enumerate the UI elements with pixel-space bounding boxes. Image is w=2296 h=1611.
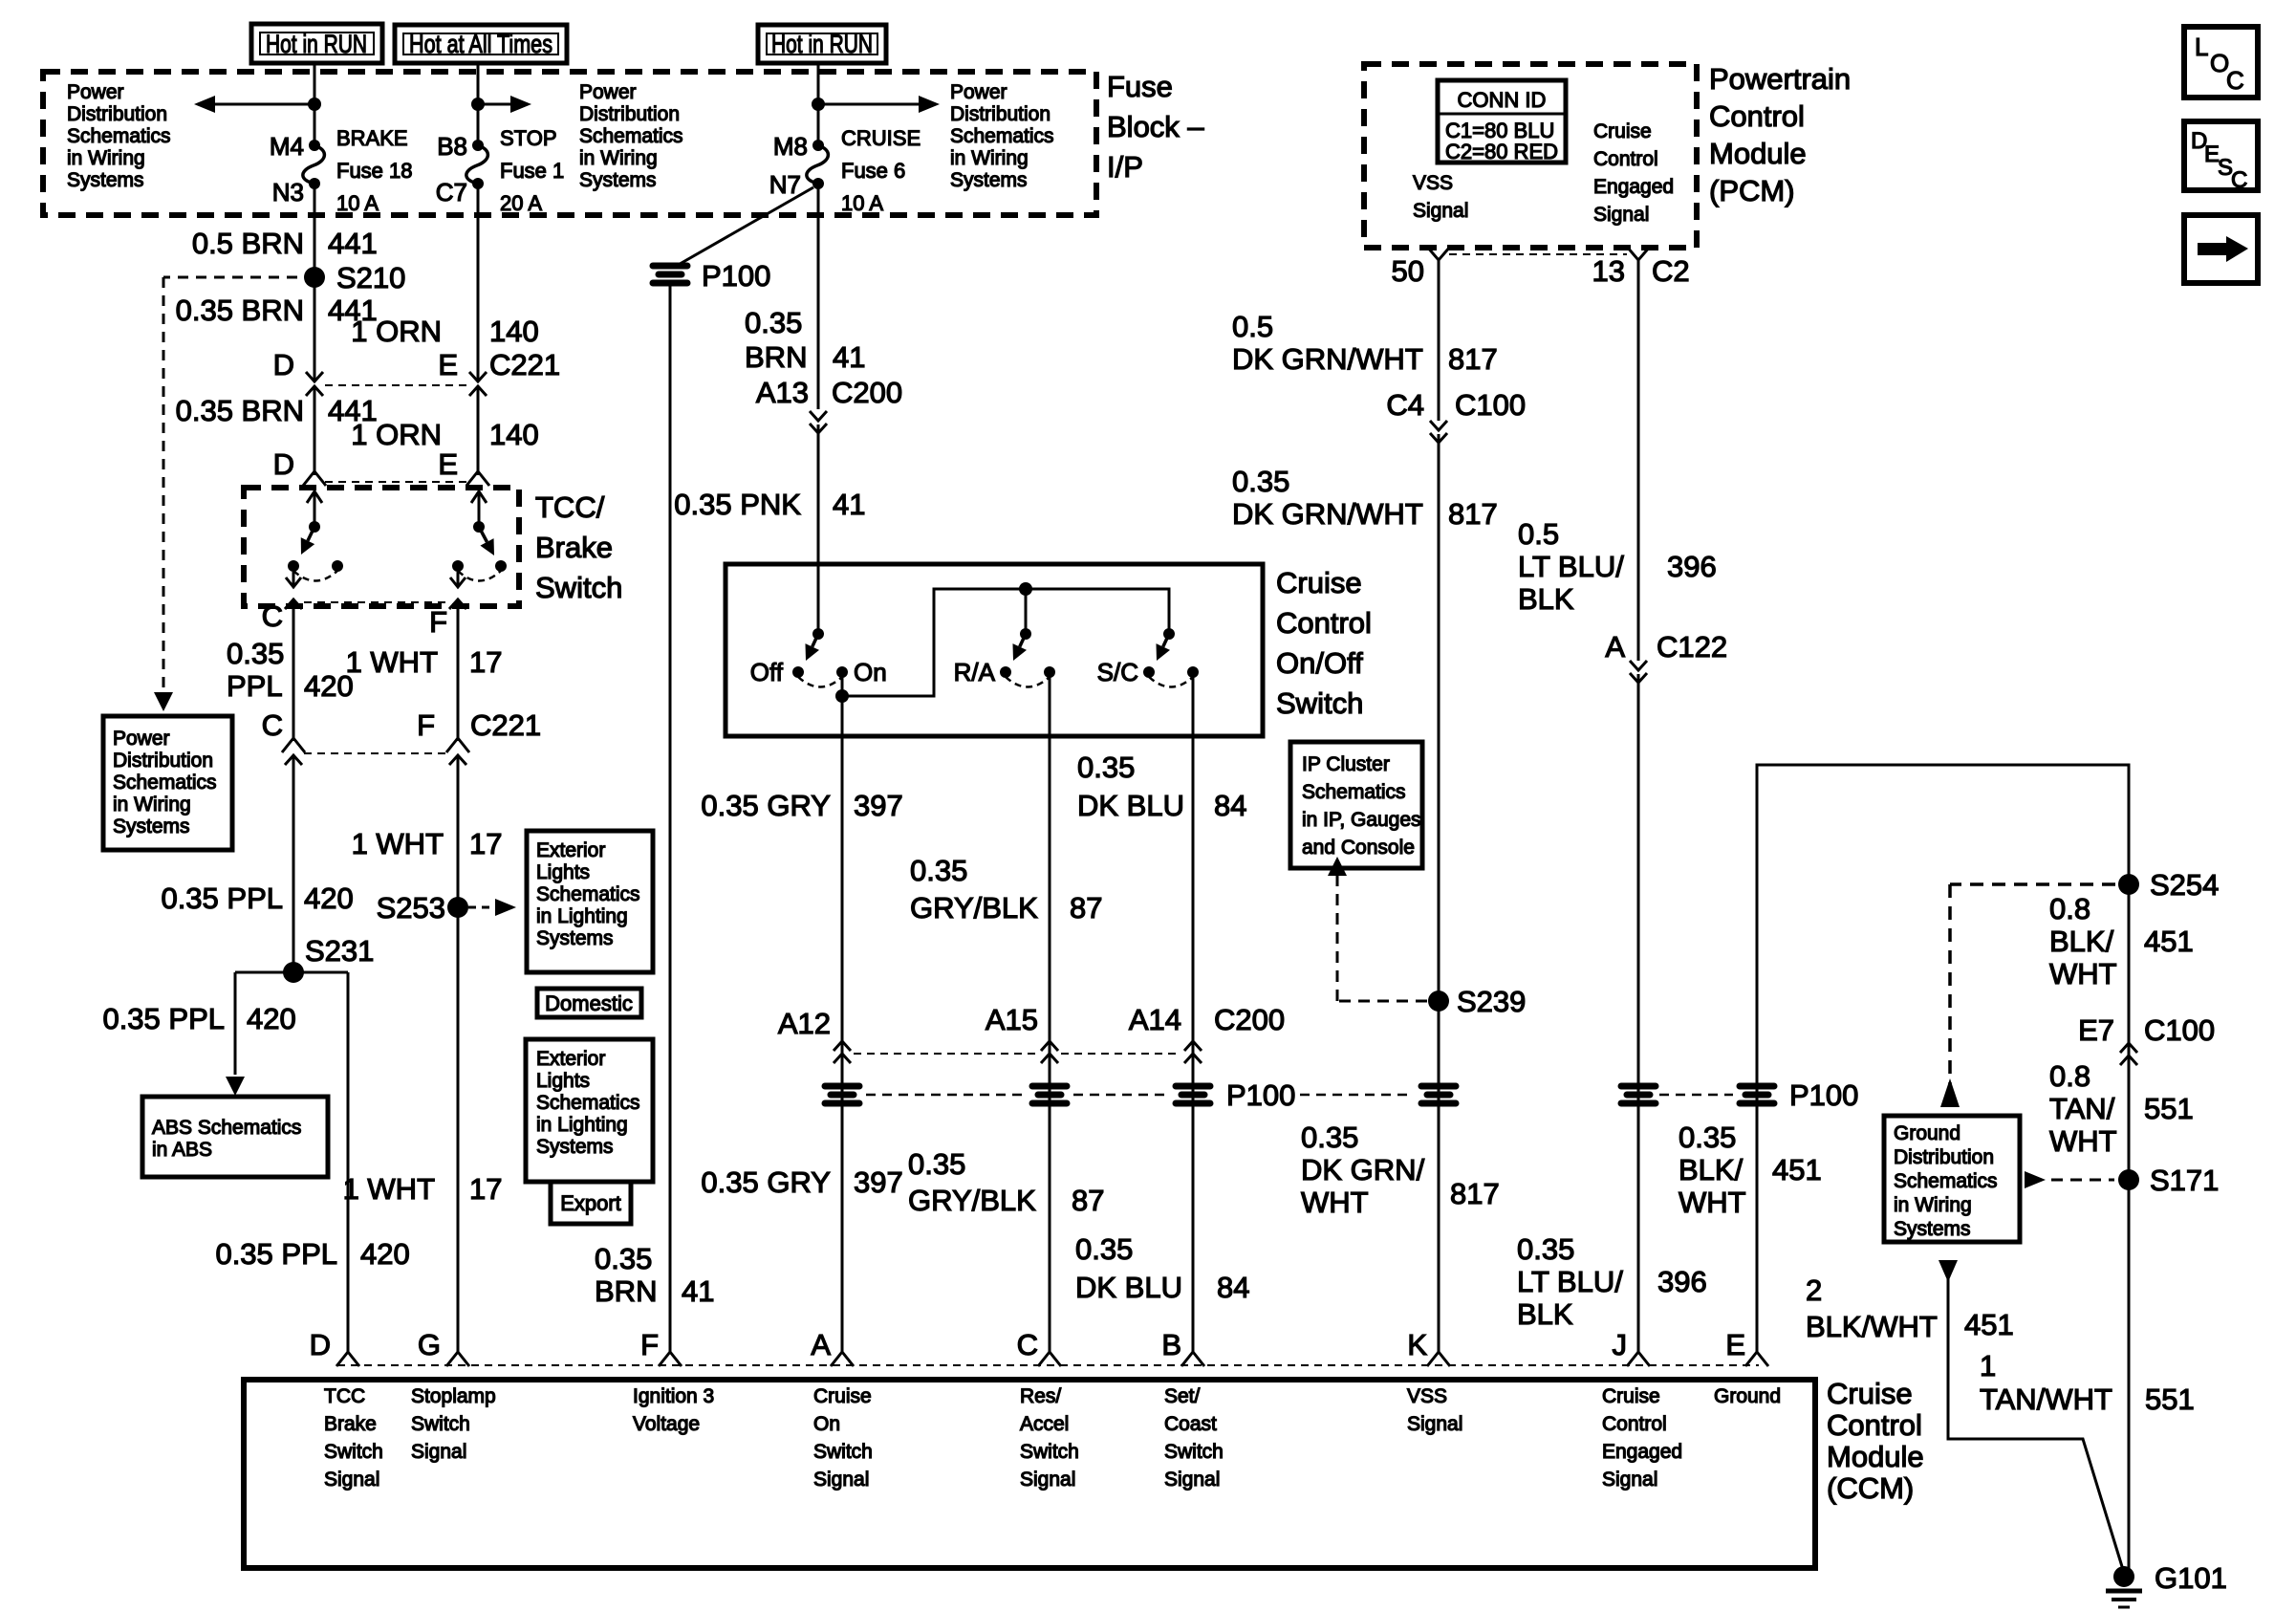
grommet P100 on ground wire [1737, 1083, 1777, 1106]
svg-text:F: F [640, 1328, 659, 1361]
splice S210 [304, 267, 325, 288]
svg-text:C122: C122 [1657, 630, 1727, 664]
svg-text:451: 451 [1772, 1153, 1822, 1186]
dashed line linking P100 grommets (left group) [866, 1094, 1026, 1097]
TCC switch right output arrow [457, 572, 460, 585]
svg-text:17: 17 [469, 827, 502, 860]
svg-text:Fuse: Fuse [1107, 70, 1173, 103]
svg-text:TAN/: TAN/ [2049, 1092, 2115, 1125]
svg-text:Control: Control [1602, 1413, 1667, 1435]
splice S253 [447, 897, 468, 918]
svg-text:Distribution: Distribution [950, 103, 1051, 125]
svg-text:817: 817 [1450, 1177, 1500, 1210]
svg-text:Off: Off [750, 658, 784, 686]
svg-text:C: C [1017, 1328, 1038, 1361]
svg-text:F: F [417, 708, 435, 742]
nav box arrow [2184, 215, 2258, 283]
grommet P100 on VSS wire [1419, 1083, 1459, 1106]
svg-text:Schematics: Schematics [1894, 1170, 1998, 1192]
svg-text:Signal: Signal [324, 1469, 379, 1491]
svg-text:Lights: Lights [536, 861, 590, 883]
svg-text:LT BLU/: LT BLU/ [1517, 1265, 1623, 1298]
svg-text:BLK/: BLK/ [2049, 925, 2114, 958]
splice S239 [1428, 991, 1449, 1012]
svg-text:Engaged: Engaged [1593, 176, 1674, 198]
svg-text:1 WHT: 1 WHT [343, 1172, 436, 1206]
svg-text:Fuse 1: Fuse 1 [500, 159, 564, 183]
svg-text:10 A: 10 A [841, 191, 883, 215]
svg-text:41: 41 [682, 1274, 714, 1308]
connector under TCC box pin F [449, 599, 466, 609]
junction dot on cruise feed [812, 98, 825, 111]
wire 17: S253 to CCM pin G [457, 903, 460, 1354]
svg-text:Schematics: Schematics [950, 125, 1054, 147]
wire: Hot at All Times feed to fuse 1 [477, 63, 480, 145]
svg-text:in Lighting: in Lighting [536, 905, 628, 927]
svg-text:C200: C200 [1214, 1003, 1285, 1036]
TCC switch left: entry arrow [314, 491, 316, 527]
svg-text:A: A [811, 1328, 831, 1361]
svg-text:D: D [310, 1328, 331, 1361]
svg-text:Signal: Signal [1020, 1469, 1075, 1491]
svg-text:(CCM): (CCM) [1827, 1471, 1914, 1505]
svg-text:M8: M8 [773, 132, 808, 161]
svg-text:C200: C200 [832, 376, 902, 409]
TCC switch left pole [309, 521, 320, 533]
reference box: Exterior Lights Schematics (export) [526, 1039, 653, 1182]
svg-text:551: 551 [2145, 1382, 2195, 1416]
TCC switch right: entry arrow [478, 491, 481, 527]
fuse F1 STOP 20A [472, 140, 484, 151]
nav box DESC [2184, 121, 2258, 190]
svg-text:Switch: Switch [535, 571, 622, 604]
svg-text:BLK/: BLK/ [1679, 1153, 1744, 1186]
TCC/Brake Switch dashed box [244, 488, 519, 606]
dashed reference from S254 to ground distribution box [1950, 882, 2115, 886]
svg-text:C: C [262, 708, 283, 742]
svg-text:WHT: WHT [2049, 1124, 2117, 1158]
svg-text:Module: Module [1709, 137, 1807, 170]
S/C set/coast switch pole [1163, 628, 1175, 640]
label box: Hot in RUN (left) [251, 24, 382, 63]
svg-text:Cruise: Cruise [1276, 566, 1362, 599]
svg-text:Export: Export [560, 1191, 621, 1215]
svg-text:41: 41 [833, 488, 865, 521]
wire 420: S231 to CCM pin D [347, 972, 350, 1354]
svg-text:Exterior: Exterior [536, 1048, 605, 1070]
svg-text:Exterior: Exterior [536, 839, 605, 861]
PCM connector pin 50 [1427, 247, 1450, 260]
svg-text:Systems: Systems [536, 927, 614, 949]
svg-text:A: A [1605, 630, 1625, 664]
svg-text:LT BLU/: LT BLU/ [1518, 550, 1624, 583]
svg-text:Systems: Systems [113, 816, 190, 838]
svg-text:Signal: Signal [1407, 1413, 1462, 1435]
svg-text:in Wiring: in Wiring [67, 147, 145, 169]
svg-text:396: 396 [1667, 550, 1717, 583]
wire: S/C output through box bottom [1192, 672, 1195, 1354]
svg-text:Cruise: Cruise [1827, 1377, 1913, 1410]
Cruise Control On/Off Switch box [726, 564, 1263, 736]
wire: jumper drop to R/A pole [1025, 589, 1028, 634]
ground G101 [2113, 1566, 2134, 1587]
svg-text:DK GRN/: DK GRN/ [1301, 1153, 1425, 1186]
svg-text:0.35 PPL: 0.35 PPL [215, 1237, 337, 1271]
svg-text:BRN: BRN [595, 1274, 657, 1308]
svg-text:Lights: Lights [536, 1070, 590, 1092]
svg-text:13: 13 [1592, 254, 1625, 288]
svg-text:F: F [429, 605, 447, 639]
dashed reference line from S210 to power distribution box [163, 276, 297, 279]
svg-text:R/A: R/A [954, 658, 996, 686]
svg-text:0.35: 0.35 [745, 306, 802, 339]
svg-text:451: 451 [2144, 925, 2194, 958]
arrow to power distribution (left) [204, 103, 314, 106]
svg-text:0.35: 0.35 [595, 1242, 652, 1275]
svg-text:Power: Power [113, 728, 170, 750]
svg-text:Engaged: Engaged [1602, 1441, 1682, 1463]
svg-text:140: 140 [489, 418, 539, 451]
svg-text:17: 17 [469, 1172, 502, 1206]
svg-text:0.8: 0.8 [2049, 892, 2090, 925]
wire: On contact to output junction [841, 672, 844, 696]
wire: Hot in RUN feed to fuse 18 [314, 63, 316, 145]
svg-text:K: K [1407, 1328, 1427, 1361]
svg-text:C2: C2 [1652, 254, 1690, 288]
wire 396: C122 to CCM pin J [1637, 674, 1640, 1354]
svg-text:Schematics: Schematics [1302, 781, 1406, 803]
svg-text:Systems: Systems [67, 169, 144, 191]
svg-text:Distribution: Distribution [113, 750, 213, 772]
svg-text:0.35: 0.35 [227, 637, 284, 670]
arrow to power distribution (right) [818, 103, 930, 106]
svg-text:140: 140 [489, 315, 539, 348]
wire 817: PCM pin 50 to C100 [1438, 258, 1440, 421]
svg-text:E: E [438, 447, 458, 481]
svg-text:S/C: S/C [1097, 658, 1138, 686]
svg-text:0.35: 0.35 [1232, 465, 1289, 498]
svg-text:0.35: 0.35 [1301, 1121, 1358, 1154]
PCM connector pin 13 C2 [1627, 247, 1650, 260]
arrow from ground distribution box down to wire 451 [1939, 1260, 1958, 1282]
svg-text:0.35 BRN: 0.35 BRN [176, 394, 304, 427]
svg-text:Switch: Switch [324, 1441, 383, 1463]
wire: cruise-on output through box bottom [841, 696, 844, 1354]
fuse F18 BRAKE 10A [309, 140, 320, 151]
wire: R/A output through box bottom [1049, 672, 1051, 1354]
wire 451: ground distribution to G101 [1948, 1277, 2124, 1573]
svg-text:Fuse 6: Fuse 6 [841, 159, 905, 183]
svg-text:84: 84 [1214, 789, 1246, 822]
svg-text:On/Off: On/Off [1276, 646, 1363, 680]
connector C221 row2 dashed line [304, 752, 447, 754]
cruise on/off switch pole [812, 628, 824, 640]
connector under TCC box dashed line [304, 601, 447, 603]
svg-text:Schematics: Schematics [113, 772, 217, 794]
svg-text:397: 397 [854, 789, 903, 822]
svg-text:Cruise: Cruise [1602, 1385, 1660, 1407]
wire: Hot in RUN feed to fuse 6 [817, 63, 820, 145]
dashed line from cruise-engaged grommet to ground grommet [1659, 1094, 1733, 1097]
svg-text:Hot at All Times: Hot at All Times [409, 30, 552, 58]
reference box: ABS Schematics in ABS [142, 1097, 328, 1177]
svg-text:C2=80 RED: C2=80 RED [1445, 140, 1558, 163]
connector C221 pin E (bottom half) [469, 386, 487, 396]
svg-text:BLK: BLK [1517, 1297, 1573, 1331]
svg-text:0.35 BRN: 0.35 BRN [176, 294, 304, 327]
svg-text:Domestic: Domestic [545, 991, 633, 1015]
wire 140: fuse 1 to connector C221 pin E [477, 184, 480, 381]
svg-text:Schematics: Schematics [67, 125, 171, 147]
svg-text:S253: S253 [377, 891, 445, 925]
svg-text:C221: C221 [470, 708, 541, 742]
svg-text:P100: P100 [1789, 1078, 1858, 1112]
svg-text:BLK/WHT: BLK/WHT [1806, 1310, 1938, 1343]
svg-text:in ABS: in ABS [152, 1139, 212, 1161]
label box: Hot at All Times [395, 25, 567, 63]
nav box LOC [2184, 27, 2258, 98]
svg-text:817: 817 [1448, 497, 1498, 531]
svg-text:GRY/BLK: GRY/BLK [910, 891, 1038, 925]
svg-text:TCC: TCC [324, 1385, 365, 1407]
svg-text:0.8: 0.8 [2049, 1059, 2090, 1093]
svg-text:1 WHT: 1 WHT [352, 827, 444, 860]
svg-text:TCC/: TCC/ [535, 490, 605, 524]
svg-text:0.35: 0.35 [908, 1147, 965, 1181]
svg-text:20 A: 20 A [500, 191, 542, 215]
svg-text:396: 396 [1657, 1265, 1707, 1298]
svg-text:S239: S239 [1457, 985, 1526, 1018]
svg-text:Systems: Systems [579, 169, 657, 191]
wire end legs at TCC box pin E [466, 471, 489, 486]
svg-text:Signal: Signal [1413, 200, 1468, 222]
svg-text:A14: A14 [1129, 1003, 1181, 1036]
svg-text:Module: Module [1827, 1440, 1924, 1473]
svg-text:551: 551 [2144, 1092, 2194, 1125]
svg-text:Systems: Systems [950, 169, 1028, 191]
label box: Export [551, 1182, 631, 1224]
svg-text:17: 17 [469, 645, 502, 679]
svg-text:M4: M4 [270, 132, 304, 161]
svg-text:Fuse 18: Fuse 18 [336, 159, 413, 183]
svg-text:PPL: PPL [227, 669, 283, 703]
svg-text:420: 420 [304, 882, 354, 915]
junction dot on jumper above R/A [1019, 582, 1032, 596]
svg-text:A15: A15 [986, 1003, 1038, 1036]
fine dashed line along CCM connector face [337, 1364, 1759, 1366]
svg-text:Signal: Signal [1602, 1469, 1657, 1491]
svg-text:C: C [2226, 66, 2244, 95]
Powertrain Control Module dashed box [1364, 64, 1697, 248]
svg-text:Switch: Switch [813, 1441, 873, 1463]
svg-text:1: 1 [1980, 1349, 1996, 1382]
dashed line from P100 label to VSS grommet [1300, 1094, 1414, 1097]
svg-text:Power: Power [950, 81, 1007, 103]
wire 396: PCM pin 13 to C122 [1637, 258, 1640, 661]
grommet P100 (top) [650, 263, 690, 286]
svg-text:0.35 GRY: 0.35 GRY [701, 789, 831, 822]
svg-text:84: 84 [1217, 1271, 1249, 1304]
svg-text:Brake: Brake [535, 531, 613, 564]
svg-text:87: 87 [1070, 891, 1102, 925]
svg-text:P100: P100 [702, 259, 770, 293]
svg-text:in Wiring: in Wiring [1894, 1194, 1972, 1216]
reference box: Power Distribution Schematics in Wiring Systems (left) [103, 716, 232, 850]
svg-text:41: 41 [833, 340, 865, 374]
svg-text:87: 87 [1072, 1184, 1104, 1217]
Cruise Control Module box [244, 1380, 1815, 1568]
svg-text:420: 420 [360, 1237, 410, 1271]
svg-text:Switch: Switch [411, 1413, 470, 1435]
svg-text:J: J [1613, 1328, 1628, 1361]
reference box: Ground Distribution Schematics in Wiring Systems [1884, 1116, 2020, 1242]
svg-text:C: C [2231, 167, 2247, 193]
svg-text:(PCM): (PCM) [1709, 174, 1795, 207]
R/A resume/accel switch pole [1020, 628, 1031, 640]
label box: Hot in RUN (middle) [758, 25, 886, 63]
svg-text:Hot in RUN: Hot in RUN [771, 30, 873, 58]
svg-text:Powertrain: Powertrain [1709, 62, 1851, 96]
TCC switch left output arrow [292, 572, 295, 585]
svg-text:Distribution: Distribution [67, 103, 167, 125]
svg-text:IP Cluster: IP Cluster [1302, 753, 1390, 775]
junction dot on brake feed [308, 98, 321, 111]
svg-text:1 ORN: 1 ORN [351, 315, 442, 348]
svg-text:Control: Control [1709, 99, 1805, 133]
svg-text:Systems: Systems [536, 1136, 614, 1158]
svg-text:C100: C100 [2144, 1013, 2215, 1047]
svg-text:Signal: Signal [1164, 1469, 1220, 1491]
svg-text:Hot in RUN: Hot in RUN [266, 30, 367, 58]
svg-text:VSS: VSS [1413, 172, 1453, 194]
svg-text:B: B [1161, 1328, 1181, 1361]
svg-text:DK GRN/WHT: DK GRN/WHT [1232, 342, 1423, 376]
svg-text:Ground: Ground [1714, 1385, 1781, 1407]
grommet P100 on res/accel wire [1029, 1083, 1070, 1106]
svg-text:Control: Control [1593, 148, 1658, 170]
svg-text:E: E [1725, 1328, 1745, 1361]
svg-text:DK GRN/WHT: DK GRN/WHT [1232, 497, 1423, 531]
svg-text:0.5: 0.5 [1232, 310, 1273, 343]
splice S171 [2118, 1169, 2139, 1190]
svg-text:N7: N7 [769, 170, 801, 199]
svg-text:Schematics: Schematics [536, 1092, 640, 1114]
svg-text:DK BLU: DK BLU [1075, 1271, 1182, 1304]
connector C200 dashed line [854, 1053, 1038, 1055]
svg-text:C4: C4 [1386, 388, 1424, 422]
svg-text:GRY/BLK: GRY/BLK [908, 1184, 1036, 1217]
svg-text:451: 451 [1964, 1308, 2014, 1341]
connector C221 dashed line (lower) [325, 481, 468, 483]
svg-text:WHT: WHT [1301, 1186, 1369, 1219]
svg-text:BRN: BRN [745, 340, 807, 374]
wire: jumper from On junction to R/A and S/C poles [842, 589, 1169, 696]
svg-text:A13: A13 [756, 376, 809, 409]
svg-text:Brake: Brake [324, 1413, 377, 1435]
svg-text:817: 817 [1448, 342, 1498, 376]
svg-text:and Console: and Console [1302, 837, 1415, 859]
svg-text:Signal: Signal [1593, 204, 1649, 226]
splice S254 [2118, 874, 2139, 895]
svg-text:VSS: VSS [1407, 1385, 1447, 1407]
svg-text:420: 420 [247, 1002, 296, 1035]
dashed reference from ground distribution box to S171 [2025, 1171, 2046, 1188]
svg-text:WHT: WHT [1679, 1186, 1746, 1219]
svg-text:in Wiring: in Wiring [113, 794, 191, 816]
svg-text:WHT: WHT [2049, 957, 2117, 991]
svg-text:in Lighting: in Lighting [536, 1114, 628, 1136]
wire 41: C200 to cruise switch [817, 425, 820, 634]
connector C221 pin D (bottom half) [306, 386, 323, 396]
svg-text:0.35: 0.35 [910, 854, 967, 887]
svg-text:N3: N3 [272, 178, 304, 207]
svg-text:0.35 GRY: 0.35 GRY [701, 1165, 831, 1199]
svg-text:0.35: 0.35 [1075, 1232, 1133, 1266]
PCM connector dashed line [1449, 253, 1627, 255]
connector under TCC box pin C [285, 599, 302, 609]
svg-text:Ground: Ground [1894, 1122, 1960, 1144]
wire 41: fuse 6 to connector C200 pin A13 [817, 184, 820, 409]
svg-text:G: G [418, 1328, 441, 1361]
svg-text:E7: E7 [2078, 1013, 2114, 1047]
svg-text:0.35 PPL: 0.35 PPL [102, 1002, 225, 1035]
svg-text:in IP, Gauges: in IP, Gauges [1302, 809, 1421, 831]
TCC switch right pole (arm to right contact) [473, 521, 485, 533]
junction dot at On output [835, 689, 849, 703]
grommet P100 on cruise engaged wire [1618, 1083, 1658, 1106]
wire: S231 branch horizontal [235, 971, 348, 974]
wire: S231 to ABS schematics arrow [234, 972, 237, 1075]
svg-text:Switch: Switch [1164, 1441, 1224, 1463]
wire 817: S239 to CCM pin K [1438, 1001, 1440, 1354]
svg-text:Voltage: Voltage [633, 1413, 700, 1435]
svg-text:0.35 PPL: 0.35 PPL [161, 882, 283, 915]
CONN ID table box [1438, 80, 1566, 163]
svg-text:Control: Control [1827, 1408, 1922, 1442]
svg-text:D: D [273, 447, 294, 481]
svg-text:DK BLU: DK BLU [1077, 789, 1184, 822]
svg-text:Signal: Signal [411, 1441, 466, 1463]
svg-text:in Wiring: in Wiring [950, 147, 1029, 169]
svg-text:Distribution: Distribution [579, 103, 680, 125]
wire 451: CCM pin E up and across to S254 down to G101 [1757, 765, 2129, 1577]
svg-text:On: On [813, 1413, 840, 1435]
svg-text:C221: C221 [489, 348, 560, 381]
svg-text:1 ORN: 1 ORN [351, 418, 442, 451]
wire 41: P100 to CCM pin F [669, 285, 672, 1354]
svg-text:0.35: 0.35 [1517, 1232, 1574, 1266]
splice S231 [283, 962, 304, 983]
svg-text:0.5 BRN: 0.5 BRN [192, 227, 304, 260]
svg-text:Block –: Block – [1107, 110, 1204, 143]
svg-text:50: 50 [1392, 254, 1424, 288]
label box: Domestic [537, 989, 641, 1017]
svg-text:Switch: Switch [1020, 1441, 1079, 1463]
svg-text:Stoplamp: Stoplamp [411, 1385, 496, 1407]
svg-text:0.35 PNK: 0.35 PNK [674, 488, 801, 521]
svg-text:CONN ID: CONN ID [1458, 88, 1547, 112]
svg-text:Switch: Switch [1276, 686, 1363, 720]
svg-text:P100: P100 [1226, 1078, 1295, 1112]
svg-text:Power: Power [67, 81, 124, 103]
wire 817: C100 to S239 [1438, 434, 1440, 1001]
svg-text:Distribution: Distribution [1894, 1146, 1994, 1168]
arrow to power distribution (mid-left) [478, 103, 522, 106]
svg-text:0.5: 0.5 [1518, 517, 1559, 551]
svg-text:C: C [262, 599, 283, 633]
reference box: IP Cluster Schematics in IP, Gauges and Console [1290, 742, 1422, 868]
fuse block I/P dashed box [43, 72, 1096, 215]
